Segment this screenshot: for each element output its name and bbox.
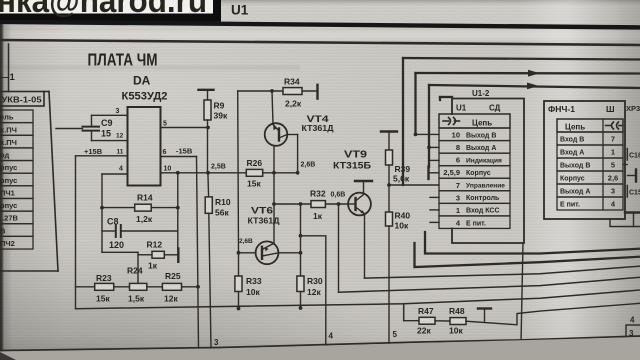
svg-text:R23: R23 xyxy=(96,273,112,283)
svg-text:Выход В: Выход В xyxy=(560,163,590,170)
svg-text:Управление: Управление xyxy=(466,183,505,190)
transistor VT6 xyxy=(239,206,280,265)
node label 3 xyxy=(214,338,219,347)
svg-text:Выход А: Выход А xyxy=(466,145,496,152)
svg-text:2,5,9: 2,5,9 xyxy=(443,168,460,177)
resistor R33 xyxy=(235,253,262,311)
svg-text:1: 1 xyxy=(611,148,615,157)
svg-text:Выход А: Выход А xyxy=(560,189,590,196)
svg-text:R33: R33 xyxy=(246,276,262,286)
svg-text:х.ПЧ: х.ПЧ xyxy=(0,138,17,147)
label -1 (left connector name, cut) xyxy=(0,72,16,83)
svg-text:7: 7 xyxy=(611,135,615,144)
svg-text:Корпус: Корпус xyxy=(466,170,491,177)
svg-text:ФНЧ-1: ФНЧ-1 xyxy=(548,104,575,114)
capacitor C18 box at edge xyxy=(623,149,640,165)
bus vertical C xyxy=(428,85,430,167)
thick black separator band xyxy=(0,20,640,30)
svg-text:4: 4 xyxy=(329,332,334,341)
bottom rail R23-R25 xyxy=(76,285,200,289)
pin 3 wire xyxy=(92,108,128,115)
pin 10 wire xyxy=(414,133,439,137)
capacitor C9 xyxy=(83,115,113,140)
svg-text:Контроль: Контроль xyxy=(466,195,500,202)
bus top line 2 with arrow xyxy=(416,70,640,77)
svg-text:2,5В: 2,5В xyxy=(211,164,226,171)
svg-text:рпус: рпус xyxy=(0,201,17,210)
svg-text:6: 6 xyxy=(456,156,460,165)
resistor R14 xyxy=(100,193,180,225)
svg-text:5: 5 xyxy=(611,161,615,170)
net 5 label xyxy=(393,330,398,339)
svg-text:R12: R12 xyxy=(147,240,163,250)
bus top vertical A xyxy=(402,58,404,185)
resistor R30 xyxy=(297,276,323,310)
resistor R48 xyxy=(435,306,466,336)
svg-text:Е пит.: Е пит. xyxy=(466,220,486,227)
bottom sheet border line xyxy=(0,336,640,351)
pin 1 stub xyxy=(430,209,439,211)
resistor R24 xyxy=(127,266,147,304)
label DA xyxy=(133,74,151,88)
svg-text:Вход В: Вход В xyxy=(560,137,584,144)
svg-text:U1: U1 xyxy=(231,3,249,18)
svg-text:R34: R34 xyxy=(284,77,300,87)
net 0,6V vertical to line D xyxy=(338,204,340,292)
svg-text:15к: 15к xyxy=(247,179,261,189)
net 4 vertical xyxy=(326,250,334,355)
wire R24 wiper xyxy=(102,252,138,282)
svg-text:рпус: рпус xyxy=(0,176,17,185)
transistor VT4 xyxy=(265,91,334,146)
svg-text:R32: R32 xyxy=(310,189,326,199)
svg-text:R9: R9 xyxy=(214,101,225,111)
resistor R23 xyxy=(95,273,114,304)
VT6 base wire xyxy=(237,251,256,255)
VT6 collector wire xyxy=(278,251,302,255)
svg-text:1к: 1к xyxy=(148,261,158,271)
resistor R32 xyxy=(310,189,326,222)
bus top line 4 xyxy=(440,97,452,100)
bottom left dark wedge xyxy=(0,352,16,360)
ФНЧ bottom wire L xyxy=(610,219,640,227)
svg-text:ель: ель xyxy=(0,113,14,122)
rail drop to R47 wire xyxy=(403,304,405,321)
connector ФНЧ-1 table xyxy=(557,119,623,210)
svg-text:3: 3 xyxy=(629,329,634,338)
svg-text:C8: C8 xyxy=(107,217,119,227)
svg-text:СД: СД xyxy=(489,104,501,113)
svg-text:Корпус: Корпус xyxy=(560,176,585,183)
svg-text:3: 3 xyxy=(214,338,219,347)
svg-text:од: од xyxy=(0,151,9,160)
svg-text:рпус: рпус xyxy=(0,163,17,172)
wire R48 to right xyxy=(466,303,640,325)
+15V vertical rail xyxy=(75,156,77,309)
svg-text:10: 10 xyxy=(164,166,172,173)
pin 6 wire / -15V xyxy=(161,147,197,157)
svg-text:R26: R26 xyxy=(247,158,263,168)
VT4 base vertical xyxy=(273,146,275,244)
pin 6 stub xyxy=(430,159,439,161)
svg-text:Выход В: Выход В xyxy=(466,132,496,139)
svg-text:1,2к: 1,2к xyxy=(136,214,153,224)
-15V vertical rail xyxy=(197,157,199,349)
svg-text:10: 10 xyxy=(452,131,460,140)
svg-text:56к: 56к xyxy=(215,208,229,218)
connector U1-2 table xyxy=(439,114,510,228)
node vertical (pin10 to R14/C8) xyxy=(177,173,179,249)
VT9 emitter wire down xyxy=(364,214,366,278)
svg-text:ХР3: ХР3 xyxy=(626,104,640,113)
svg-text:22к: 22к xyxy=(417,326,431,336)
svg-text:+15В: +15В xyxy=(84,147,103,156)
collector vertical to R32 wire xyxy=(299,202,303,276)
svg-text:12к: 12к xyxy=(307,287,321,297)
op-amp DA box xyxy=(128,107,161,186)
connector X1 outer box xyxy=(0,92,58,272)
pin 10 wire (2,5V node) xyxy=(161,164,300,175)
svg-text:1к: 1к xyxy=(313,211,323,221)
label U1 (top) xyxy=(231,3,249,18)
resistor R10 xyxy=(205,197,231,348)
svg-text:КТ361Д: КТ361Д xyxy=(302,123,334,133)
resistor R9 xyxy=(199,90,228,128)
wire to R34 xyxy=(238,89,316,93)
svg-text:5: 5 xyxy=(393,330,398,339)
connector X1 УКВ-1-05 header xyxy=(0,92,44,107)
svg-text:0,6В: 0,6В xyxy=(331,192,346,199)
svg-text:6: 6 xyxy=(163,149,167,156)
svg-text:R24: R24 xyxy=(127,266,143,276)
resistor R34 xyxy=(283,77,318,109)
feedback wire down to VT6 base xyxy=(237,91,240,253)
svg-text:КТ361Д: КТ361Д xyxy=(248,216,280,226)
svg-text:R48: R48 xyxy=(449,306,465,316)
label ХР3 xyxy=(626,104,640,113)
svg-text:В: В xyxy=(0,226,6,235)
node 0,6V label xyxy=(331,192,346,199)
wire base row y=204 xyxy=(272,202,348,206)
resistor R25 xyxy=(162,271,181,304)
svg-text:R14: R14 xyxy=(137,193,153,203)
svg-text:ПЧ2: ПЧ2 xyxy=(0,239,15,248)
svg-text:Вход КСС: Вход КСС xyxy=(466,208,500,215)
svg-text:120: 120 xyxy=(109,240,124,250)
svg-text:VT9: VT9 xyxy=(344,150,368,161)
wire R9 to node 2,5V xyxy=(208,128,209,197)
branch wire to net 4 xyxy=(301,236,326,250)
resistor R26 xyxy=(246,158,262,189)
bus top line 1 xyxy=(403,58,640,60)
connector U1-2 outer box xyxy=(452,99,524,244)
VT4 collector wire xyxy=(287,135,298,173)
capacitor C8 xyxy=(102,217,178,251)
connector X1 pin rows xyxy=(0,110,33,249)
svg-text:R47: R47 xyxy=(418,306,434,316)
svg-text:39к: 39к xyxy=(214,111,228,121)
svg-text:5: 5 xyxy=(163,121,167,128)
svg-text:10к: 10к xyxy=(449,326,463,336)
svg-text:12: 12 xyxy=(116,133,124,140)
pin 4 stub xyxy=(430,221,439,223)
+15V label and pin 11 wire xyxy=(76,147,128,156)
bus top line 3 with arrow xyxy=(429,83,640,90)
bus bottom line A xyxy=(425,232,640,254)
svg-text:УКВ-1-05: УКВ-1-05 xyxy=(2,96,43,105)
terminal T right edge xyxy=(625,213,640,227)
svg-text:R40: R40 xyxy=(395,211,411,221)
svg-text:4: 4 xyxy=(630,316,635,325)
bus bottom line C xyxy=(365,266,640,278)
pin 2,5,9 ground terminal xyxy=(429,167,440,180)
pin 7 wire to R39/R40 node xyxy=(389,184,439,186)
wire U1-2 box to bottom xyxy=(521,243,523,343)
svg-text:1: 1 xyxy=(456,206,460,215)
svg-text:Е пит.: Е пит. xyxy=(560,202,580,209)
resistor R40 xyxy=(386,211,411,345)
connector ФНЧ-1 outer box xyxy=(544,101,625,219)
svg-text:15к: 15к xyxy=(96,294,110,304)
svg-text:3: 3 xyxy=(116,108,120,115)
svg-text:R25: R25 xyxy=(165,271,181,281)
svg-text:U1: U1 xyxy=(456,104,467,113)
svg-text:Ш: Ш xyxy=(606,104,615,114)
svg-text:ПЧ1: ПЧ1 xyxy=(0,189,15,198)
pin 4 wire xyxy=(102,166,128,253)
svg-text:15: 15 xyxy=(101,129,111,139)
ФНЧ Корпус terminal xyxy=(628,170,637,182)
resistor R39 xyxy=(381,132,410,213)
svg-text:-15В: -15В xyxy=(176,147,193,156)
svg-text:2,6: 2,6 xyxy=(608,174,618,183)
terminal T after R48 xyxy=(478,309,491,323)
capacitor C15 box at edge xyxy=(627,186,640,198)
sheet top border line xyxy=(0,40,640,45)
svg-text:х.ПЧ: х.ПЧ xyxy=(0,125,17,134)
pin 3 stub xyxy=(430,196,439,198)
resistor R12 xyxy=(138,240,178,271)
svg-text:4: 4 xyxy=(119,166,123,173)
ground rail y=308 continuing right xyxy=(76,290,640,309)
svg-text:2,2к: 2,2к xyxy=(285,99,302,109)
svg-text:10к: 10к xyxy=(246,287,260,297)
svg-text:К553УД2: К553УД2 xyxy=(122,91,168,103)
svg-text:—1: —1 xyxy=(0,72,16,83)
net 4 right label xyxy=(630,316,635,325)
svg-text:3: 3 xyxy=(611,187,615,196)
pin 8 wire xyxy=(427,146,439,150)
label К553УД2 xyxy=(122,91,168,103)
svg-text:Вход А: Вход А xyxy=(560,150,584,157)
svg-text:3: 3 xyxy=(456,193,460,202)
svg-text:Индикация: Индикация xyxy=(466,158,502,165)
title ПЛАТА ЧМ xyxy=(88,50,158,70)
svg-text:C9: C9 xyxy=(101,118,113,128)
svg-text:2,6В: 2,6В xyxy=(239,238,253,245)
svg-text:11: 11 xyxy=(117,149,124,156)
connector U1-2 label xyxy=(472,89,490,98)
pin 5 wire xyxy=(161,121,210,130)
svg-text:ПЛАТА ЧМ: ПЛАТА ЧМ xyxy=(88,50,158,70)
bus bottom line D xyxy=(339,277,640,292)
svg-text:нка@narod.ru: нка@narod.ru xyxy=(0,0,207,19)
wire stub to left connector xyxy=(56,128,83,130)
bus vertical B xyxy=(414,73,416,134)
svg-text:R10: R10 xyxy=(215,197,231,207)
svg-text:Цепь: Цепь xyxy=(472,119,492,128)
net 3 box right xyxy=(626,325,640,339)
watermark email box xyxy=(0,0,217,19)
resistor R47 xyxy=(404,306,435,336)
svg-text:1,5к: 1,5к xyxy=(128,294,145,304)
svg-text:5,6к: 5,6к xyxy=(393,174,410,184)
svg-text:С18: С18 xyxy=(629,153,640,160)
svg-text:7: 7 xyxy=(456,181,460,190)
svg-text:С15: С15 xyxy=(629,190,640,197)
transistor VT9 xyxy=(333,150,372,216)
svg-text:8: 8 xyxy=(456,143,460,152)
svg-text:Цепь: Цепь xyxy=(565,123,585,132)
svg-text:12к: 12к xyxy=(164,294,178,304)
below-border shading xyxy=(0,337,640,360)
svg-text:10к: 10к xyxy=(395,221,409,231)
sheet left border xyxy=(8,44,10,92)
node 2,6V label (top) xyxy=(301,162,316,169)
pin 12 wire xyxy=(92,133,128,141)
svg-text:U1-2: U1-2 xyxy=(472,89,490,98)
svg-text:DA: DA xyxy=(133,74,151,88)
svg-text:..27В: ..27В xyxy=(0,214,19,223)
bus bottom line B xyxy=(415,243,640,267)
svg-text:КТ315Б: КТ315Б xyxy=(333,161,372,171)
svg-text:R30: R30 xyxy=(307,276,323,286)
svg-text:2,6В: 2,6В xyxy=(301,162,316,169)
